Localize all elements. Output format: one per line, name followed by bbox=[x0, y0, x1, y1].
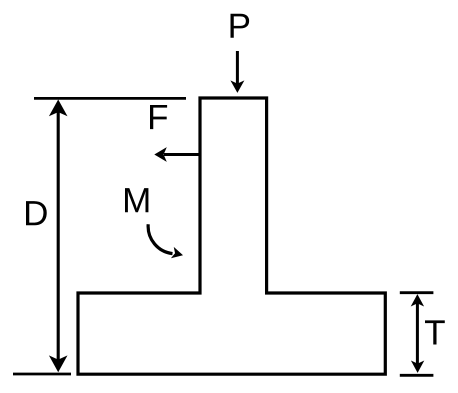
footing/pedestal T-shaped outline bbox=[78, 98, 385, 374]
moment M curved arrow bbox=[148, 224, 184, 261]
label F bbox=[150, 105, 167, 129]
bottom reference line bbox=[13, 373, 71, 376]
shear force F arrow bbox=[154, 147, 200, 162]
label M bbox=[125, 188, 148, 212]
label P bbox=[231, 14, 250, 38]
dimension D double arrow bbox=[49, 100, 68, 373]
top reference line (grade line) bbox=[34, 97, 186, 100]
label D bbox=[26, 201, 47, 225]
label T bbox=[425, 320, 445, 344]
dimension T ticks and double arrow bbox=[400, 293, 434, 376]
load P arrow bbox=[230, 51, 244, 93]
